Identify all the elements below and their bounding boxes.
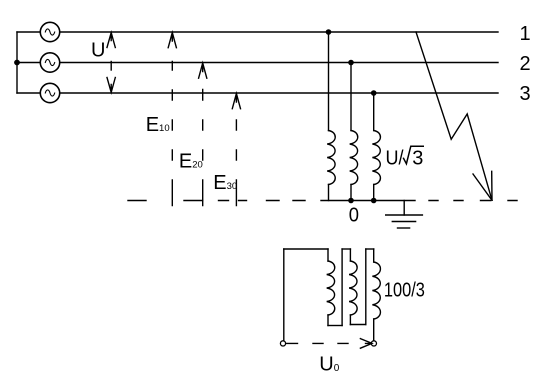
wire jog W2 to riser 2	[350, 324, 365, 326]
svg-text:E20: E20	[179, 150, 203, 172]
arrow E30 head	[232, 94, 240, 109]
svg-text:3: 3	[520, 83, 531, 105]
svg-text:E10: E10	[146, 114, 170, 136]
inductor L1	[327, 131, 335, 201]
secondary terminal right	[371, 341, 376, 346]
svg-text:100/3: 100/3	[384, 278, 425, 301]
svg-text:1: 1	[520, 23, 531, 45]
junction neutral node L3	[371, 198, 377, 204]
wire jog W1 to riser 1	[328, 325, 342, 327]
arrow U down head	[107, 78, 115, 93]
AC source G3	[40, 83, 59, 102]
inductor L2	[350, 131, 358, 201]
secondary terminal left	[280, 341, 285, 346]
wire drop phase 2	[350, 63, 352, 131]
svg-text:U/: U/	[386, 148, 405, 170]
wire phase line 2	[17, 62, 498, 64]
wire E20 dashed stem	[202, 90, 204, 206]
inductor W1	[327, 261, 335, 326]
junction drop 3 on line 3	[371, 90, 377, 96]
arrow U0 head	[360, 339, 372, 349]
wire ground dashed line right	[429, 200, 517, 202]
ground symbol	[386, 201, 423, 229]
junction drop 2 on line 2	[348, 60, 354, 66]
arrow E10 head	[168, 33, 176, 48]
fault arrow	[416, 32, 492, 200]
arrow E20 head	[199, 63, 207, 78]
wire winding W2 lead	[349, 249, 351, 261]
svg-text:U: U	[91, 39, 105, 61]
wire left bus	[16, 32, 18, 93]
inductor W3	[372, 262, 380, 341]
junction left bus node	[14, 60, 20, 66]
wire drop phase 3	[373, 93, 375, 131]
AC source G1	[40, 22, 59, 41]
junction drop 1 on line 1	[326, 29, 332, 35]
svg-text:2: 2	[520, 53, 531, 75]
AC source G2	[40, 53, 59, 72]
wire E10 dashed stem	[171, 62, 173, 206]
svg-text:3: 3	[412, 148, 423, 170]
svg-text:U0: U0	[319, 353, 339, 375]
wire drop phase 1	[328, 32, 330, 131]
wire phase line 1	[17, 31, 498, 33]
wire winding W1 lead	[327, 249, 329, 261]
wire winding W3 lead	[373, 249, 375, 262]
wire secondary left vertical	[283, 249, 285, 341]
arrow U mid tick	[110, 62, 112, 71]
svg-text:E30: E30	[213, 172, 237, 194]
inductor L3	[372, 131, 380, 201]
wire phase line 3	[17, 92, 498, 94]
svg-text:0: 0	[349, 205, 359, 227]
wire U-bend 1 top	[342, 248, 350, 250]
wire U-bend 2 top	[366, 248, 374, 250]
wire secondary top rail	[284, 248, 328, 250]
wire riser 2	[365, 249, 367, 325]
arrow U up head	[107, 33, 115, 48]
wire neutral solid line	[321, 200, 415, 202]
label U/sqrt3	[386, 146, 425, 170]
wire ground dashed line left	[128, 200, 305, 202]
inductor W2	[349, 261, 357, 325]
wire riser 1	[341, 249, 343, 326]
wire E30 dashed stem	[235, 120, 237, 206]
wire U0 dashed measure	[286, 342, 348, 344]
junction neutral node L2	[348, 198, 354, 204]
